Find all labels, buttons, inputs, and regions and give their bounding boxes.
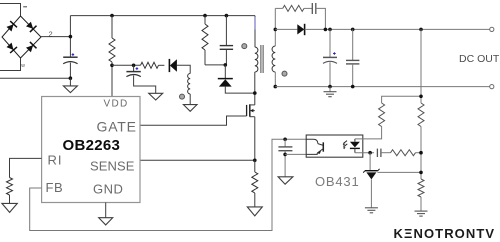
- capacitor C7 plus mark: [333, 52, 336, 55]
- wire startup resistor top lead: [111, 16, 113, 38]
- node junction output cap2 top: [351, 28, 355, 32]
- resistor R3 snubber: [202, 24, 208, 50]
- node junction opto emitter: [283, 153, 287, 157]
- node junction snubber drop: [324, 28, 328, 32]
- resistor R7 compensation: [391, 150, 416, 156]
- resistor R1 startup: [109, 38, 115, 62]
- wire snubber C top lead: [225, 16, 227, 46]
- wire stub to primary ground: [69, 78, 71, 86]
- ground primary (triangle): [63, 86, 77, 93]
- wire secondary node to rectifier anode: [275, 28, 297, 30]
- wire aux diode to winding: [177, 65, 190, 73]
- wire DC+ rail: [305, 28, 490, 30]
- wire AC input top from left edge to bridge: [0, 4, 21, 17]
- svg-text:FB: FB: [46, 180, 64, 195]
- wire snubber RC bottom link: [205, 64, 226, 66]
- inductor L1 aux winding: [188, 74, 191, 94]
- node junction output cap1 bottom: [328, 85, 332, 89]
- wire snubber R to C: [304, 7, 312, 9]
- wire VDD cap to ground: [134, 75, 156, 93]
- wire stub to output earth: [329, 87, 331, 92]
- transformer secondary phasing dot: [282, 71, 287, 76]
- wire comp resistor to divider node: [416, 152, 422, 154]
- capacitor C8 output ceramic: [346, 60, 359, 64]
- node junction snubber diode: [224, 63, 228, 67]
- capacitor C1 bulk electrolytic: [63, 57, 77, 64]
- wire output cap1 top lead: [329, 29, 331, 57]
- wire gate drive from GATE pin: [140, 116, 247, 125]
- op-amp U1 OB2263 controller box: [42, 97, 140, 203]
- wire primary bottom to MOSFET drain: [254, 72, 256, 105]
- wire RI resistor to ground: [9, 195, 11, 204]
- svg-text:SENSE: SENSE: [90, 159, 135, 174]
- wire top rail corner to primary (blue tint): [254, 16, 256, 47]
- resistor R8 secondary snubber: [283, 5, 304, 11]
- wire bias resistor top to output node: [382, 96, 421, 103]
- ground RI resistor (triangle): [2, 203, 17, 212]
- wire AC input bottom from bridge to left edge: [0, 58, 21, 71]
- wire LED anode to bias resistor: [355, 127, 382, 139]
- capacitor C1 plus mark: [72, 53, 75, 56]
- wire opto emitter to node: [285, 153, 306, 155]
- terminal DC+ circle: [490, 27, 494, 31]
- bridge diode D2 upper-right: [26, 22, 33, 29]
- wire bridge + output node 2 to bulk cap: [41, 36, 70, 38]
- resistor R4 current sense: [252, 172, 258, 193]
- capacitor C2 plus mark: [136, 67, 139, 70]
- node junction LED cathode: [368, 151, 372, 155]
- node junction FB filter cap: [283, 138, 287, 142]
- svg-text:w: w: [21, 63, 25, 69]
- node junction sense: [253, 159, 257, 163]
- diode D7 output rectifier: [297, 24, 304, 35]
- resistor R2 aux feed: [141, 62, 159, 68]
- node junction bias rail: [419, 95, 423, 99]
- optocoupler light arrows: [343, 141, 348, 150]
- node junction secondary bottom: [274, 85, 278, 89]
- terminal DC- circle: [490, 85, 494, 89]
- svg-text:GATE: GATE: [97, 119, 137, 135]
- wire aux winding to ground: [189, 94, 191, 105]
- resistor R10 divider lower: [418, 179, 424, 197]
- wire snubber diode anode to drain node: [225, 87, 255, 94]
- wire VDD node to aux feed: [112, 64, 141, 66]
- optocoupler LED: [350, 139, 360, 153]
- wire output cap2 bottom lead: [352, 64, 354, 87]
- capacitor C4 FB filter: [278, 147, 292, 151]
- wire snubber R bottom lead: [204, 50, 206, 65]
- svg-text:OB431: OB431: [315, 174, 359, 189]
- ground TL431 (earth): [365, 208, 378, 213]
- resistor R6 opto bias: [379, 103, 385, 127]
- svg-text:OB2263: OB2263: [63, 137, 121, 154]
- transformer T1 primary winding: [255, 47, 258, 72]
- wire aux feed resistor to diode: [159, 64, 165, 66]
- svg-text:KΞNOTRONTV: KΞNOTRONTV: [394, 226, 496, 241]
- optocoupler U2 box: [306, 135, 363, 157]
- node junction output cap1 top: [328, 28, 332, 32]
- wire snubber C to diode cathode: [316, 8, 326, 29]
- capacitor C7 output electrolytic: [323, 57, 337, 63]
- wire GND pin lead: [105, 203, 107, 218]
- wire secondary top to rectifier node: [274, 8, 276, 46]
- node junction bulk cap top: [69, 35, 73, 39]
- wire SENSE pin to source node: [140, 159, 255, 161]
- wire bulk cap top lead / riser to top rail: [69, 16, 71, 57]
- diode D5 aux rectifier (cathode left): [169, 59, 177, 72]
- node junction output cap2 bottom: [351, 85, 355, 89]
- ground IC GND (triangle): [99, 218, 113, 225]
- wire comp cap to resistor: [381, 152, 391, 154]
- wire FB cap bottom to ground: [284, 151, 286, 177]
- wire sense resistor top lead: [254, 160, 256, 172]
- ground opto emitter (triangle): [278, 177, 293, 184]
- wire FB cap top lead: [284, 139, 286, 146]
- svg-text:RI: RI: [48, 153, 63, 168]
- capacitor C3 snubber: [220, 46, 233, 50]
- wire divider from DC+ rail: [420, 29, 422, 103]
- wire snubber R top lead: [204, 16, 206, 24]
- node junction divider top: [419, 28, 423, 32]
- aux winding phasing dot: [180, 94, 185, 99]
- resistor R9 divider upper: [418, 103, 424, 127]
- transformer T1 core: [261, 45, 263, 73]
- node junction negative rail: [69, 76, 73, 80]
- wire divider mid: [420, 127, 422, 180]
- node junction VDD cap: [132, 64, 136, 68]
- wire DC- rail: [275, 86, 489, 88]
- bridge diode D1 upper-left: [7, 24, 14, 31]
- capacitor C2 VDD electrolytic: [126, 72, 140, 77]
- wire output cap2 top lead: [352, 29, 354, 60]
- svg-text:GND: GND: [93, 181, 123, 196]
- node junction secondary top: [274, 28, 278, 32]
- wire snubber C bottom lead: [225, 49, 227, 65]
- wire LED cathode to TL431: [355, 152, 374, 154]
- ground sense resistor (triangle): [247, 207, 262, 216]
- wire snubber diode cathode lead: [224, 65, 226, 79]
- ground VDD cap (triangle): [149, 93, 163, 100]
- wire FB pin to optocoupler collector: [30, 139, 307, 230]
- wire secondary bottom to DC- rail: [274, 72, 276, 87]
- node junction comp RC: [419, 151, 423, 155]
- transformer T1 secondary winding: [272, 46, 275, 72]
- ground divider (earth): [415, 211, 428, 216]
- node junction top rail at startup resistor: [110, 14, 114, 18]
- wire MOSFET source down: [254, 117, 256, 161]
- wire VDD cap top lead: [133, 65, 135, 71]
- ground output (earth): [324, 92, 337, 97]
- wire TL431 cathode riser: [369, 153, 371, 171]
- wire sense resistor to ground: [254, 193, 256, 207]
- capacitor C5 compensation: [377, 149, 381, 157]
- wire top DC+ rail: [70, 15, 255, 17]
- wire startup resistor bottom to VDD pin: [111, 62, 113, 97]
- wire RI pin to resistor: [10, 158, 42, 177]
- wire TL431 anode to ground: [370, 179, 372, 207]
- svg-text:DC OUT: DC OUT: [459, 53, 500, 65]
- optocoupler phototransistor: [306, 139, 323, 154]
- wire negative rail to left edge: [0, 77, 70, 79]
- svg-text:VDD: VDD: [104, 99, 129, 110]
- diode D6 snubber clamp (cathode up): [218, 79, 233, 87]
- node junction VDD feed: [110, 64, 114, 68]
- bridge diode D4 lower-right: [26, 45, 33, 52]
- bridge diode D3 lower-left: [7, 43, 14, 50]
- capacitor C6 secondary snubber: [312, 3, 316, 14]
- ground aux winding (triangle): [183, 105, 197, 112]
- wire secondary snubber left leg: [275, 7, 282, 9]
- node junction top rail snubber C: [225, 14, 229, 18]
- bridge BR1 diamond outline: [2, 16, 41, 58]
- wire output cap1 bottom lead: [329, 62, 331, 86]
- wire bulk cap bottom lead: [69, 63, 71, 79]
- node junction ref: [419, 171, 423, 175]
- wire divider lower to earth: [420, 197, 422, 211]
- shunt regulator U3 OB431 symbol: [363, 169, 379, 180]
- bridge BR1 pin mark top: [23, 6, 27, 8]
- wire TL431 ref to divider: [378, 171, 422, 173]
- resistor R5 RI set: [7, 178, 13, 196]
- node junction top rail snubber R: [203, 14, 207, 18]
- node junction drain / snubber: [253, 91, 257, 95]
- transformer primary phasing dot: [242, 44, 247, 49]
- transistor Q1 MOSFET symbol: [247, 104, 255, 116]
